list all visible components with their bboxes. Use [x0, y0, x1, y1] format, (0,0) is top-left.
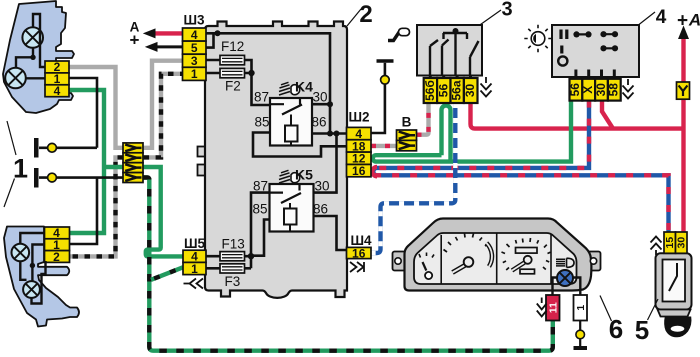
svg-text:1: 1: [191, 262, 198, 276]
svg-text:56б: 56б: [423, 80, 437, 101]
svg-text:F12: F12: [221, 39, 244, 54]
svg-text:16: 16: [352, 246, 366, 260]
svg-text:15: 15: [664, 237, 676, 249]
svg-text:85: 85: [254, 115, 269, 130]
svg-text:4: 4: [191, 28, 198, 42]
svg-text:F2: F2: [225, 79, 241, 94]
svg-text:Ш5: Ш5: [184, 236, 206, 251]
svg-text:30: 30: [463, 84, 477, 98]
svg-text:30: 30: [314, 179, 329, 194]
svg-text:16: 16: [352, 164, 366, 178]
svg-text:1: 1: [575, 305, 587, 311]
svg-text:2: 2: [359, 1, 372, 28]
svg-text:K5: K5: [295, 167, 313, 183]
svg-text:85: 85: [252, 202, 267, 217]
svg-text:86: 86: [313, 202, 328, 217]
svg-text:4: 4: [54, 84, 61, 98]
svg-text:1: 1: [13, 154, 28, 184]
svg-text:A: A: [688, 11, 700, 30]
svg-text:56: 56: [436, 84, 450, 98]
svg-text:30: 30: [312, 90, 327, 105]
svg-text:86: 86: [311, 115, 326, 130]
svg-text:3: 3: [191, 54, 198, 68]
svg-text:+: +: [677, 11, 688, 32]
svg-text:30: 30: [676, 237, 688, 249]
svg-text:87: 87: [253, 179, 268, 194]
svg-text:11: 11: [547, 302, 559, 313]
svg-text:K4: K4: [295, 79, 313, 95]
svg-text:5: 5: [635, 315, 649, 345]
svg-text:5: 5: [191, 41, 198, 55]
svg-text:6: 6: [609, 314, 623, 344]
svg-text:F13: F13: [222, 237, 245, 252]
svg-text:87: 87: [254, 90, 269, 105]
svg-text:F3: F3: [225, 274, 241, 289]
svg-text:Ш2: Ш2: [348, 110, 369, 125]
svg-text:58: 58: [607, 83, 621, 97]
svg-text:56а: 56а: [450, 80, 464, 100]
svg-text:+: +: [130, 31, 140, 50]
svg-text:3: 3: [501, 0, 512, 21]
svg-text:В: В: [402, 115, 412, 130]
svg-text:4: 4: [656, 7, 667, 28]
svg-text:1: 1: [191, 67, 198, 81]
svg-text:Ш3: Ш3: [183, 13, 205, 28]
svg-text:2: 2: [53, 250, 60, 264]
